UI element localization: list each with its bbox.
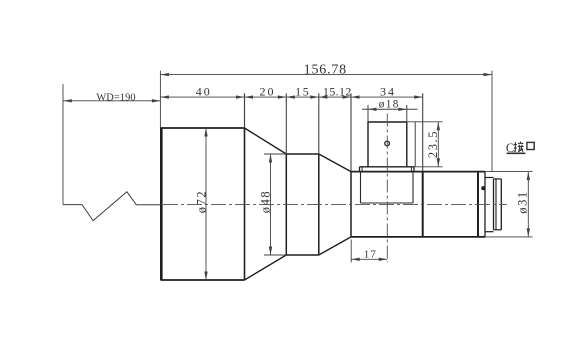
svg-text:15.12: 15.12 bbox=[323, 84, 352, 98]
svg-text:ø18: ø18 bbox=[379, 99, 400, 111]
svg-text:40: 40 bbox=[196, 84, 212, 98]
svg-text:156.78: 156.78 bbox=[304, 63, 347, 78]
svg-text:34: 34 bbox=[380, 84, 396, 98]
svg-text:ø31: ø31 bbox=[516, 190, 530, 214]
svg-text:20: 20 bbox=[260, 84, 276, 98]
svg-text:23.5: 23.5 bbox=[426, 130, 440, 158]
svg-text:ø72: ø72 bbox=[194, 190, 208, 214]
svg-text:15: 15 bbox=[295, 84, 310, 98]
svg-text:WD=190: WD=190 bbox=[96, 92, 135, 103]
svg-text:17: 17 bbox=[364, 248, 377, 260]
svg-text:ø48: ø48 bbox=[258, 190, 272, 214]
